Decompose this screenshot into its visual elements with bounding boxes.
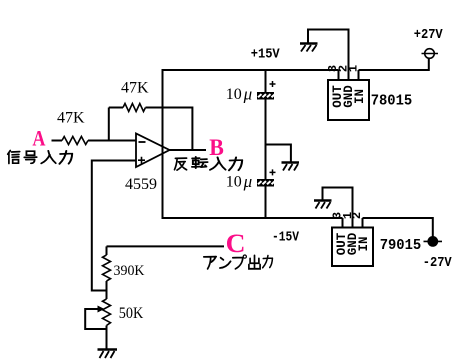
svg-text:-27V: -27V	[423, 255, 453, 271]
svg-text:+27V: +27V	[414, 27, 444, 43]
terminal -27V	[424, 236, 443, 247]
wire feedback left lead	[109, 107, 123, 109]
svg-text:A: A	[32, 126, 46, 151]
regulator U3 internal labels OUT GND IN	[335, 232, 371, 255]
op-amp plus symbol	[138, 157, 145, 164]
svg-text:79015: 79015	[380, 238, 422, 254]
regulator U2 pin labels 3 2 1	[326, 65, 361, 72]
svg-text:47K: 47K	[57, 110, 85, 127]
svg-text:78015: 78015	[371, 93, 413, 109]
svg-text:10: 10	[226, 86, 242, 103]
svg-text:390K: 390K	[114, 263, 145, 279]
wire capacitor midpoint to ground	[266, 145, 291, 162]
label hanten nyuuryoku (inverting input)	[175, 157, 243, 170]
wire input lead from A	[52, 140, 63, 142]
svg-text:IN: IN	[357, 236, 371, 251]
regulator U3 pin labels 3 1 2	[331, 212, 365, 219]
wire 78015 ground pin2	[308, 30, 349, 81]
svg-text:47K: 47K	[121, 80, 149, 97]
wire C output line	[107, 245, 225, 247]
svg-text:2: 2	[350, 212, 364, 219]
resistor R3 390K vertical	[103, 255, 111, 281]
regulator U3 79015 box	[332, 228, 373, 267]
wire 79015 input to -27V terminal	[363, 218, 433, 237]
svg-text:1: 1	[347, 65, 361, 72]
op-amp U1 4559 triangle	[136, 134, 170, 168]
wire 390K top lead	[106, 246, 108, 255]
svg-text:+15V: +15V	[251, 47, 281, 63]
ground G1 for 78015	[300, 44, 318, 52]
wire feedback tap vertical	[108, 108, 110, 141]
wire 78015 input to +27V terminal	[359, 59, 429, 71]
regulator U2 78015 box	[328, 80, 369, 120]
svg-text:μ: μ	[243, 172, 253, 191]
wire pin stub 79015 pin3	[342, 218, 344, 228]
terminal +27V	[422, 49, 439, 59]
svg-text:IN: IN	[353, 89, 367, 104]
wire capacitor rail	[265, 70, 267, 218]
wire pin stub 79015 pin2	[362, 218, 364, 228]
wire 79015 ground pin1	[323, 188, 353, 228]
label shingou nyuuryoku (signal input)	[8, 151, 72, 164]
resistor VR1 50K vertical	[103, 299, 111, 326]
svg-text:50K: 50K	[119, 305, 144, 322]
ground G3 for 79015	[314, 201, 332, 209]
op-amp minus symbol	[139, 141, 146, 143]
capacitor C2 10u lower	[257, 169, 276, 186]
wire 390K bottom lead to 50K top	[106, 281, 108, 299]
wire inverting input line	[88, 140, 136, 142]
label ampu shutsuryoku (amp output)	[204, 255, 273, 269]
regulator U2 internal labels OUT GND IN	[331, 85, 367, 108]
ground G2 capacitor midpoint	[282, 163, 300, 171]
wire feedback right segment and drop to output	[146, 108, 193, 151]
wire pin stub 78015 pin3	[338, 70, 340, 80]
wire 50K bottom lead to ground	[106, 326, 108, 350]
svg-text:C: C	[226, 229, 246, 258]
svg-text:μ: μ	[243, 85, 253, 104]
wire potentiometer wiper loop	[85, 309, 106, 329]
wire pin stub 78015 pin1	[358, 70, 360, 80]
svg-text:10: 10	[226, 174, 242, 191]
resistor R1 47K input	[62, 137, 88, 145]
wire +15V rail and supply vertical and -15V rail	[163, 70, 343, 218]
wire non-inverting input down to 390K bottom junction	[92, 161, 136, 291]
potentiometer wiper arrow	[98, 306, 105, 313]
ground G4 under 50K	[98, 350, 118, 359]
svg-text:-15V: -15V	[272, 230, 299, 246]
resistor R2 47K feedback	[123, 104, 146, 112]
svg-text:4559: 4559	[125, 176, 157, 193]
capacitor C1 10u upper	[257, 81, 276, 100]
wire op-amp output to B	[170, 149, 207, 151]
